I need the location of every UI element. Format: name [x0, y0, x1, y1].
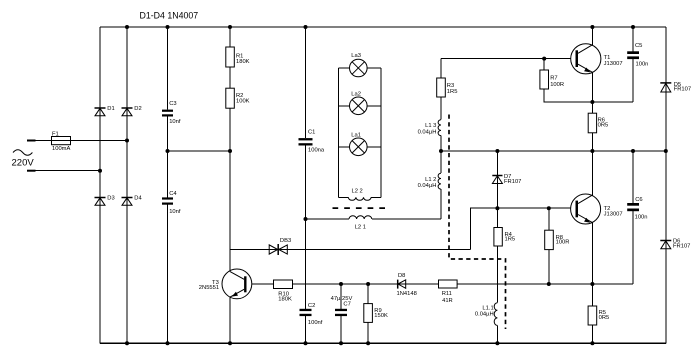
inductor L2.2: [348, 197, 371, 200]
wire C1-C2 column mid: [305, 146, 307, 309]
capacitor C5: [627, 51, 639, 54]
svg-text:100n: 100n: [635, 214, 648, 220]
resistor R9: [364, 304, 373, 323]
diode D1: [95, 107, 106, 109]
wire R5 column: [591, 284, 593, 343]
svg-text:D4: D4: [134, 195, 142, 201]
wire left column: [99, 27, 101, 343]
svg-text:L1 2: L1 2: [425, 177, 436, 183]
wire C7 column: [340, 284, 342, 309]
transistor T1: [571, 44, 601, 74]
svg-text:C7: C7: [343, 302, 350, 308]
svg-text:DB3: DB3: [280, 238, 291, 244]
svg-text:0R5: 0R5: [598, 123, 609, 129]
svg-text:C2: C2: [308, 303, 315, 309]
capacitor C3: [27, 51, 639, 316]
svg-text:1R5: 1R5: [505, 237, 516, 243]
wire R1-R2-T3 column: [229, 27, 231, 343]
wire DB3 row: [230, 249, 470, 251]
svg-text:FR107: FR107: [674, 87, 691, 93]
capacitor C6: [627, 203, 639, 206]
resistor R3: [437, 78, 446, 97]
lamp La3: [350, 59, 368, 155]
svg-text:T1: T1: [604, 55, 611, 61]
resistor R11: [439, 280, 458, 288]
wire mid rail right: [441, 150, 666, 152]
wire L1.1 to bottom rail: [496, 325, 498, 343]
svg-text:100R: 100R: [556, 240, 570, 246]
wire mid rail left: [168, 150, 231, 152]
wire L2.1 row right: [372, 218, 441, 220]
wire lamp box bottom right: [371, 196, 381, 198]
svg-text:100R: 100R: [550, 82, 564, 88]
svg-text:D8: D8: [398, 273, 405, 279]
wire C1 column top: [305, 27, 307, 138]
svg-text:FR107: FR107: [504, 179, 521, 185]
wire La2 stubs: [339, 105, 350, 107]
resistor R2: [226, 88, 235, 108]
wire R7 column: [544, 59, 633, 102]
wire C6 column lower: [632, 211, 634, 284]
svg-text:R7: R7: [550, 76, 557, 82]
wire AC neutral to bridge: [36, 170, 101, 172]
wire T2 collector-emitter column: [591, 151, 593, 284]
svg-text:10nf: 10nf: [169, 119, 181, 125]
svg-text:C4: C4: [169, 191, 177, 197]
svg-text:0.04µH: 0.04µH: [418, 183, 437, 189]
wire R4 column: [496, 208, 498, 303]
svg-text:D1-D4 1N4007: D1-D4 1N4007: [140, 11, 199, 21]
wire La1 stubs: [339, 146, 350, 148]
wire AC live to bridge: [36, 140, 128, 142]
svg-text:100n: 100n: [636, 62, 649, 68]
wire L1.3 to mid rail: [440, 136, 442, 174]
resistor R8: [545, 230, 554, 249]
resistor R6: [588, 113, 596, 133]
capacitor C7: [335, 309, 347, 311]
svg-text:La1: La1: [351, 132, 361, 138]
wire lamp box left bus: [338, 68, 340, 197]
AC terminal top: [27, 140, 36, 142]
svg-text:2N5551: 2N5551: [199, 285, 219, 291]
svg-text:D3: D3: [107, 195, 114, 201]
transistor T3: [222, 269, 252, 299]
svg-text:C6: C6: [635, 197, 642, 203]
svg-text:La3: La3: [351, 53, 361, 59]
wire C6 column upper: [632, 151, 634, 203]
resistor R10: [274, 280, 293, 289]
svg-text:D2: D2: [134, 106, 141, 112]
svg-text:D1: D1: [107, 106, 114, 112]
capacitor C2: [300, 309, 312, 311]
wire L2.1 row left: [306, 218, 350, 220]
lamp La2: [350, 97, 368, 115]
wire L1 column upper: [440, 59, 442, 120]
wire C4 bottom segment: [167, 205, 169, 344]
wire L1.2 to L2.1 row: [440, 189, 442, 219]
svg-text:0R5: 0R5: [599, 315, 610, 321]
diac DB3: [277, 244, 279, 255]
AC source squiggle: [13, 150, 32, 156]
svg-text:180K: 180K: [236, 59, 250, 65]
diode D3: [95, 197, 106, 199]
wire T1 base row: [441, 58, 576, 60]
transistor T2: [571, 194, 601, 224]
wire C3 column top: [167, 27, 169, 110]
diode D5: [660, 82, 671, 84]
wire D2/D4 column: [126, 27, 128, 343]
capacitor C1: [299, 138, 313, 140]
wire diac riser: [470, 208, 576, 249]
wire bottom rail: [100, 342, 666, 344]
wire R9 column: [367, 284, 369, 343]
svg-text:220V: 220V: [12, 158, 35, 169]
core dashes L2 transformer: [333, 207, 386, 209]
svg-text:41R: 41R: [442, 298, 453, 304]
svg-text:La2: La2: [351, 92, 361, 98]
svg-text:FR107: FR107: [673, 244, 690, 250]
inductor L1.2: [438, 173, 441, 189]
resistor R4: [494, 228, 502, 247]
wire La3 stubs: [339, 67, 350, 69]
AC terminal bottom: [27, 170, 36, 172]
svg-text:1R5: 1R5: [447, 89, 458, 95]
wire R8 column: [548, 208, 550, 284]
svg-text:J13007: J13007: [604, 61, 623, 67]
wire lamp box right bus: [380, 68, 382, 197]
svg-text:C3: C3: [169, 101, 176, 107]
svg-text:F1: F1: [52, 131, 59, 137]
wire C7 bottom: [340, 316, 342, 343]
resistor R7: [540, 70, 549, 89]
svg-text:1N4148: 1N4148: [397, 291, 417, 297]
svg-text:0.04µH: 0.04µH: [418, 129, 437, 135]
wire C5 column top: [632, 27, 634, 51]
svg-text:150K: 150K: [374, 313, 388, 319]
svg-text:L1 3: L1 3: [425, 123, 436, 129]
capacitor C4: [162, 197, 173, 199]
svg-text:C1: C1: [308, 130, 315, 136]
diode D4: [122, 197, 133, 199]
svg-text:10nf: 10nf: [169, 209, 181, 215]
svg-text:R3: R3: [447, 83, 454, 89]
svg-text:100mA: 100mA: [52, 146, 71, 152]
svg-text:100nf: 100nf: [308, 320, 323, 326]
fuse F1 wire through: [45, 140, 80, 142]
svg-text:0.04µH: 0.04µH: [475, 312, 494, 318]
svg-text:L2 1: L2 1: [355, 224, 366, 230]
svg-text:100na: 100na: [308, 147, 325, 153]
fuse F1: [52, 137, 71, 145]
wire T3 base row: [245, 283, 633, 285]
svg-text:C5: C5: [635, 43, 642, 49]
svg-text:L2 2: L2 2: [352, 188, 363, 194]
diode D8: [397, 280, 399, 289]
inductor L2.1: [349, 216, 372, 219]
diode D7: [492, 175, 502, 177]
wire top rail: [100, 26, 666, 28]
wire C2 bottom segment: [305, 316, 307, 343]
wire T1 collector-emitter column: [591, 27, 593, 151]
svg-text:R11: R11: [442, 291, 452, 297]
lamp La1: [350, 138, 368, 156]
resistor R1: [226, 47, 235, 67]
diode D2: [122, 107, 133, 109]
svg-text:100K: 100K: [236, 99, 250, 105]
diode D6: [660, 240, 671, 242]
wire right column D5/D6: [665, 27, 667, 343]
wire C5 column below: [632, 59, 634, 102]
inductor L1.3: [438, 120, 441, 136]
inductor L1.1: [494, 303, 497, 326]
svg-text:180K: 180K: [278, 296, 292, 302]
resistor R5: [588, 306, 597, 325]
svg-text:J13007: J13007: [604, 211, 623, 217]
wire D7 column: [496, 151, 498, 208]
wire lamp box bottom left: [339, 196, 349, 198]
core dashes L1 transformer: [449, 115, 506, 330]
wire C3-C4 mid segment: [167, 117, 169, 198]
